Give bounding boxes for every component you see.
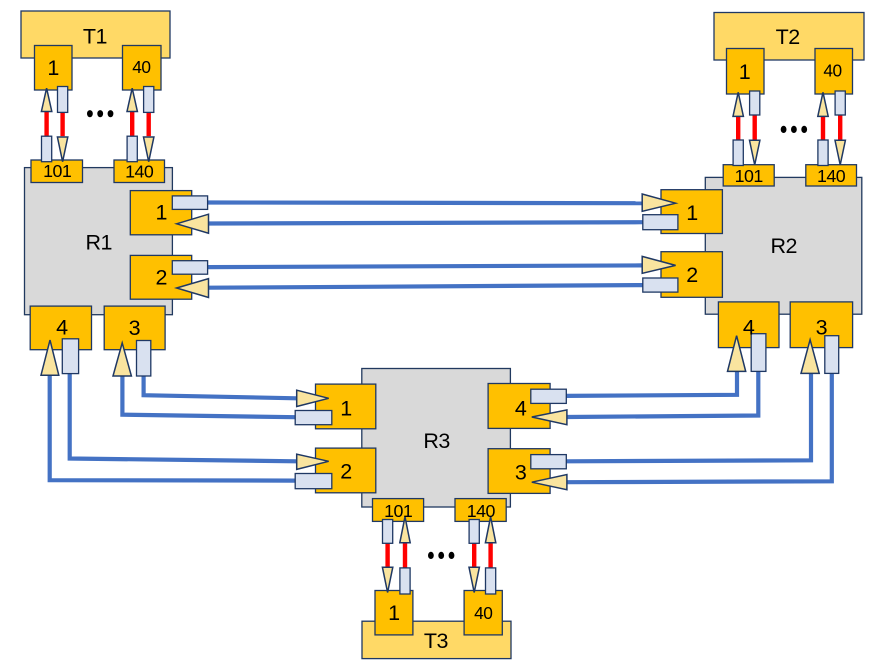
connector R1-2 tx xyxy=(172,261,207,275)
wire R2-1 tx to R1-1 xyxy=(209,222,643,223)
port R2-2 box xyxy=(661,252,722,298)
dots T1 xyxy=(87,110,113,117)
arrow R3-3 rx xyxy=(532,475,567,490)
connector T1-40 rx tx-end xyxy=(127,136,137,162)
connector T3-40 rx tx-end xyxy=(486,568,496,594)
svg-text:2: 2 xyxy=(686,263,697,287)
connector R3-2 tx xyxy=(295,474,332,489)
connector T2-40 rx tx-end xyxy=(818,140,828,166)
connector T3-40 tx tx xyxy=(469,520,479,544)
wire R3-2 tx to R1-4 xyxy=(50,375,296,481)
wire T2-1 down xyxy=(753,115,757,140)
arrow R3-1 rx xyxy=(297,390,329,406)
arrow R1-3 rx xyxy=(113,343,131,376)
wire R3-1 tx to R1-3 xyxy=(122,376,295,418)
wire R2-2 tx to R1-2 xyxy=(209,285,643,288)
connector R3-3 tx xyxy=(531,455,567,469)
svg-text:140: 140 xyxy=(467,501,496,521)
wire R1-1 tx to R2-1 xyxy=(208,200,643,205)
wire T3-40 up xyxy=(488,543,492,568)
arrow T3-40 rx rx xyxy=(485,517,495,543)
svg-text:1: 1 xyxy=(388,601,399,625)
connector R2-3 tx xyxy=(825,336,839,374)
arrow R2-4 rx xyxy=(728,336,746,372)
port R1-4 box xyxy=(30,306,91,350)
wire T3-1 down xyxy=(385,543,389,567)
arrow T1-40 tx rx xyxy=(144,137,154,162)
port R2-1 box xyxy=(661,190,722,234)
wire T3-1 up xyxy=(403,543,407,568)
port R2-140 box xyxy=(806,165,857,186)
svg-text:R1: R1 xyxy=(85,230,111,254)
port T1-40 box xyxy=(123,46,162,91)
connector R2-2 tx xyxy=(643,278,678,292)
arrow R2-1 rx xyxy=(642,194,675,211)
wire R1-2 tx to R2-2 xyxy=(208,265,643,267)
arrow R1-2 rx xyxy=(177,279,209,298)
svg-text:4: 4 xyxy=(743,316,755,340)
svg-text:101: 101 xyxy=(735,166,764,186)
port R3-101 box xyxy=(373,499,424,522)
wire T1-40 down xyxy=(146,112,150,136)
connector T1-1 tx tx xyxy=(58,87,68,113)
port T3-1 box xyxy=(375,591,413,635)
connector R1-3 tx xyxy=(137,341,151,377)
svg-text:1: 1 xyxy=(340,396,351,420)
svg-text:101: 101 xyxy=(43,161,72,181)
terminal T3 bar xyxy=(362,621,511,658)
port T2-40 box xyxy=(815,49,853,95)
wire T2-40 down xyxy=(838,115,842,140)
connector T1-40 tx tx xyxy=(144,87,154,113)
arrow R3-4 rx xyxy=(532,410,567,425)
wire R1-3 tx to R3-1 xyxy=(144,374,297,398)
svg-text:1: 1 xyxy=(47,56,58,80)
svg-text:4: 4 xyxy=(56,315,68,339)
arrow R1-1 rx xyxy=(177,214,209,233)
svg-text:1: 1 xyxy=(686,201,697,225)
port R3-1 box xyxy=(316,384,376,429)
wire R3-3 tx to R2-3 xyxy=(566,373,811,461)
wire R2-4 tx to R3-4 xyxy=(567,371,758,417)
svg-text:R2: R2 xyxy=(770,234,796,258)
arrow T3-40 tx rx xyxy=(469,567,479,592)
wire R3-4 tx to R2-4 xyxy=(566,371,737,396)
arrow R2-3 rx xyxy=(801,340,819,374)
svg-text:3: 3 xyxy=(129,316,141,340)
router R2 body xyxy=(705,177,862,314)
port R1-140 box xyxy=(114,160,165,183)
port R1-2 box xyxy=(130,255,191,299)
port R1-101 box xyxy=(31,160,83,183)
arrow R2-2 rx xyxy=(642,256,675,273)
connector R2-4 tx xyxy=(751,334,766,372)
connector R1-1 tx xyxy=(172,196,207,210)
wire T2-40 up xyxy=(821,116,825,140)
wire T1-1 up xyxy=(44,112,48,137)
port R2-4 box xyxy=(718,302,779,348)
router R1 body xyxy=(25,168,173,315)
port R3-2 box xyxy=(316,448,376,493)
connector R3-4 tx xyxy=(531,389,567,403)
dots T3 xyxy=(428,552,454,559)
svg-text:4: 4 xyxy=(515,396,527,420)
arrow T2-40 tx rx xyxy=(835,140,845,165)
svg-text:40: 40 xyxy=(474,603,492,623)
svg-text:140: 140 xyxy=(817,166,846,186)
router R3 body xyxy=(362,369,511,508)
wire T2-1 up xyxy=(736,116,740,140)
connector T2-40 tx tx xyxy=(835,91,845,115)
svg-text:T1: T1 xyxy=(83,25,107,49)
wire R2-3 tx to R3-3 xyxy=(567,373,832,482)
arrow T2-40 rx rx xyxy=(818,92,828,116)
svg-text:T2: T2 xyxy=(776,25,800,49)
svg-text:1: 1 xyxy=(739,60,750,84)
terminal T1 bar xyxy=(21,11,170,58)
port R3-3 box xyxy=(488,449,550,494)
svg-text:3: 3 xyxy=(816,316,828,340)
arrow T2-1 tx rx xyxy=(750,140,760,165)
port T3-40 box xyxy=(464,591,502,635)
arrow T1-1 tx rx xyxy=(57,137,67,162)
arrow T1-40 rx rx xyxy=(127,88,137,111)
connector R2-1 tx xyxy=(643,215,678,230)
svg-text:3: 3 xyxy=(515,461,527,485)
port T1-1 box xyxy=(35,46,73,91)
svg-text:1: 1 xyxy=(155,201,166,225)
port R2-101 box xyxy=(723,165,774,186)
arrow R1-4 rx xyxy=(41,340,59,375)
port R1-3 box xyxy=(104,306,165,350)
svg-text:2: 2 xyxy=(155,266,166,290)
connector T2-1 rx tx-end xyxy=(733,140,743,166)
port R3-4 box xyxy=(488,384,550,429)
port R3-140 box xyxy=(455,499,506,522)
connector T1-1 rx tx-end xyxy=(42,136,52,162)
svg-text:T3: T3 xyxy=(424,629,449,653)
wire T1-40 up xyxy=(130,112,134,137)
port R1-1 box xyxy=(130,191,191,235)
terminal T2 bar xyxy=(714,13,864,61)
svg-text:40: 40 xyxy=(132,57,150,77)
connector T3-1 tx tx xyxy=(383,520,393,544)
svg-text:R3: R3 xyxy=(423,429,450,453)
connector T2-1 tx tx xyxy=(750,91,760,115)
svg-text:140: 140 xyxy=(125,162,154,182)
svg-text:2: 2 xyxy=(340,459,351,483)
svg-text:40: 40 xyxy=(823,60,841,80)
port T2-1 box xyxy=(727,49,765,95)
svg-text:101: 101 xyxy=(384,501,413,521)
dots T2 xyxy=(781,126,807,133)
arrow R3-2 rx xyxy=(297,454,329,469)
wire T1-1 down xyxy=(60,112,64,136)
wire T3-40 down xyxy=(472,543,476,567)
wire R1-4 tx to R3-2 xyxy=(70,373,297,461)
arrow T3-1 rx rx xyxy=(400,517,410,543)
arrow T1-1 rx rx xyxy=(41,88,51,111)
port R2-3 box xyxy=(790,302,852,348)
connector R1-4 tx xyxy=(62,339,78,374)
connector T3-1 rx tx-end xyxy=(400,568,410,594)
arrow T3-1 tx rx xyxy=(382,567,392,592)
connector R3-1 tx xyxy=(295,411,332,425)
arrow T2-1 rx rx xyxy=(733,92,743,116)
